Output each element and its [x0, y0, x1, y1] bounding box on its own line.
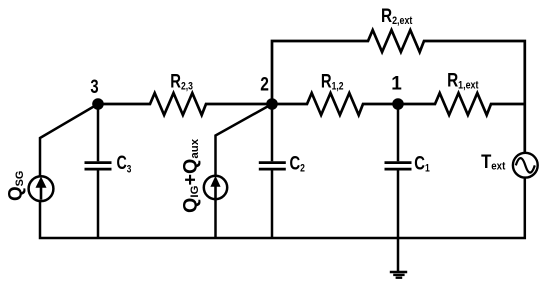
- svg-text:2,ext: 2,ext: [392, 15, 413, 27]
- svg-text:Q: Q: [5, 186, 26, 201]
- svg-text:3: 3: [90, 76, 98, 97]
- svg-text:SG: SG: [14, 171, 26, 187]
- svg-text:1: 1: [391, 74, 402, 95]
- svg-text:1,2: 1,2: [332, 80, 344, 92]
- svg-text:aux: aux: [189, 138, 201, 158]
- svg-text:R: R: [170, 71, 181, 92]
- svg-text:C: C: [117, 152, 127, 173]
- svg-text:1: 1: [425, 162, 430, 174]
- svg-text:T: T: [481, 151, 491, 172]
- svg-text:R: R: [447, 69, 459, 91]
- svg-text:C: C: [290, 153, 301, 174]
- svg-text:+Q: +Q: [180, 159, 202, 186]
- svg-text:C: C: [414, 153, 425, 174]
- svg-text:IG: IG: [189, 185, 201, 197]
- svg-text:2: 2: [260, 73, 269, 95]
- svg-text:3: 3: [127, 164, 132, 176]
- svg-text:2: 2: [300, 162, 305, 174]
- svg-text:R: R: [321, 71, 332, 92]
- svg-text:R: R: [381, 5, 393, 27]
- svg-text:2,3: 2,3: [181, 80, 193, 92]
- svg-text:1,ext: 1,ext: [458, 80, 479, 92]
- svg-text:ext: ext: [491, 161, 506, 173]
- svg-text:Q: Q: [180, 198, 202, 213]
